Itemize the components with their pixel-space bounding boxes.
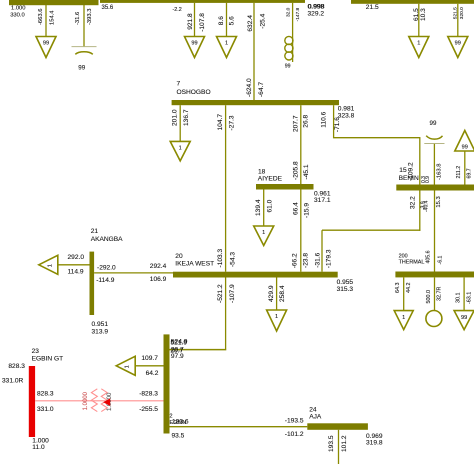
svg-text:30.1: 30.1: [455, 293, 461, 304]
svg-text:15.3: 15.3: [436, 196, 442, 207]
svg-text:-179.3: -179.3: [326, 249, 333, 268]
svg-text:32.7R: 32.7R: [437, 287, 443, 301]
svg-text:-23.8: -23.8: [303, 253, 310, 268]
svg-text:IKEJA WEST: IKEJA WEST: [175, 261, 214, 268]
svg-text:18: 18: [258, 168, 266, 175]
svg-text:-393.3: -393.3: [87, 9, 93, 25]
svg-text:-31.6: -31.6: [75, 12, 81, 25]
svg-text:-107.9: -107.9: [229, 284, 236, 303]
svg-text:99: 99: [43, 41, 49, 47]
svg-text:-40.4: -40.4: [424, 200, 430, 212]
svg-text:-6.1: -6.1: [438, 255, 444, 264]
svg-text:154.4: 154.4: [50, 10, 56, 25]
svg-text:-66.2: -66.2: [292, 253, 299, 268]
svg-text:AIYEDE: AIYEDE: [258, 175, 283, 182]
svg-text:313.9: 313.9: [92, 329, 109, 336]
svg-text:OSHOGBO: OSHOGBO: [177, 89, 211, 96]
svg-text:1.000: 1.000: [11, 6, 26, 12]
svg-text:828.3: 828.3: [8, 363, 25, 370]
svg-text:99: 99: [455, 41, 461, 47]
svg-text:-15.9: -15.9: [303, 203, 310, 218]
svg-text:0.9: 0.9: [425, 176, 431, 183]
svg-text:99: 99: [461, 315, 467, 321]
svg-text:139.4: 139.4: [255, 199, 262, 216]
svg-text:99: 99: [462, 145, 468, 151]
svg-text:500.0: 500.0: [426, 290, 432, 304]
svg-text:331.0R: 331.0R: [2, 378, 24, 385]
svg-text:44.2: 44.2: [406, 283, 412, 294]
svg-text:193.5: 193.5: [328, 435, 335, 452]
svg-text:7: 7: [177, 80, 181, 87]
svg-text:315.3: 315.3: [337, 286, 354, 293]
svg-text:828.3: 828.3: [37, 390, 54, 397]
svg-text:64.3: 64.3: [395, 283, 401, 294]
svg-text:-107.8: -107.8: [199, 13, 206, 32]
svg-text:207.7: 207.7: [292, 115, 299, 132]
svg-text:-292.0: -292.0: [97, 264, 116, 271]
svg-text:-2.2: -2.2: [173, 7, 182, 13]
svg-text:24: 24: [309, 407, 317, 414]
svg-text:200: 200: [399, 254, 408, 260]
svg-text:109.7: 109.7: [141, 355, 158, 362]
svg-text:32.0: 32.0: [285, 7, 291, 17]
svg-text:331.0: 331.0: [37, 406, 54, 413]
svg-text:-828.3: -828.3: [139, 391, 158, 398]
svg-text:-63.1: -63.1: [466, 292, 472, 304]
svg-text:106.9: 106.9: [150, 276, 167, 283]
svg-text:429.9: 429.9: [268, 285, 275, 302]
svg-text:-103.3: -103.3: [217, 248, 224, 267]
svg-text:136.7: 136.7: [183, 109, 190, 126]
svg-text:-255.5: -255.5: [139, 406, 158, 413]
svg-text:1: 1: [402, 315, 405, 321]
svg-text:-205.8: -205.8: [293, 161, 300, 180]
svg-text:-25.4: -25.4: [259, 13, 266, 28]
svg-text:99: 99: [285, 64, 291, 70]
svg-text:320.0: 320.0: [459, 7, 465, 19]
svg-text:93.5: 93.5: [172, 433, 185, 440]
svg-text:-521.2: -521.2: [217, 284, 224, 303]
svg-text:0.951: 0.951: [92, 321, 109, 328]
svg-text:110.6: 110.6: [321, 111, 328, 127]
svg-text:101.2: 101.2: [341, 435, 348, 452]
svg-text:1: 1: [262, 230, 265, 236]
svg-text:-101.2: -101.2: [285, 431, 304, 438]
svg-text:319.8: 319.8: [366, 440, 383, 447]
svg-text:99: 99: [78, 64, 85, 71]
svg-text:-147.8: -147.8: [295, 7, 301, 21]
svg-text:-193.5: -193.5: [285, 417, 304, 424]
svg-text:-45.1: -45.1: [303, 164, 310, 179]
svg-text:-31.6: -31.6: [314, 252, 321, 267]
svg-text:11.0: 11.0: [32, 444, 45, 451]
svg-text:THERMAL: THERMAL: [399, 260, 425, 266]
svg-text:405.6: 405.6: [425, 250, 431, 263]
svg-text:69.7: 69.7: [466, 168, 472, 178]
svg-text:521.5: 521.5: [452, 7, 458, 19]
svg-text:114.9: 114.9: [68, 268, 84, 275]
svg-text:632.4: 632.4: [247, 15, 254, 32]
svg-text:20: 20: [175, 253, 183, 260]
svg-text:201.0: 201.0: [171, 109, 178, 126]
svg-text:35.6: 35.6: [102, 5, 114, 11]
svg-text:-54.3: -54.3: [229, 252, 236, 267]
svg-text:-71.6: -71.6: [334, 117, 341, 132]
svg-text:0.998: 0.998: [308, 4, 325, 11]
svg-text:317.1: 317.1: [314, 197, 331, 204]
svg-text:292.0: 292.0: [68, 254, 85, 261]
svg-text:23: 23: [32, 348, 40, 355]
svg-text:258.4: 258.4: [279, 285, 286, 302]
svg-text:1: 1: [225, 41, 228, 47]
svg-text:8.6: 8.6: [218, 16, 225, 25]
svg-text:AKANGBA: AKANGBA: [91, 236, 123, 243]
svg-text:32.2: 32.2: [409, 196, 416, 209]
svg-text:1: 1: [125, 365, 131, 368]
svg-text:EGBIN GT: EGBIN GT: [32, 355, 64, 362]
svg-text:64.2: 64.2: [146, 370, 159, 377]
svg-text:330.0: 330.0: [10, 12, 25, 18]
svg-text:99: 99: [191, 41, 197, 47]
svg-text:193.6: 193.6: [172, 419, 189, 426]
svg-text:15: 15: [399, 167, 407, 174]
svg-text:104.7: 104.7: [217, 114, 224, 131]
svg-text:21: 21: [91, 228, 99, 235]
svg-text:AJA: AJA: [309, 414, 322, 421]
svg-text:-163.8: -163.8: [437, 164, 443, 180]
svg-text:1: 1: [275, 314, 278, 320]
svg-text:21.5: 21.5: [366, 4, 379, 11]
svg-text:1: 1: [179, 146, 182, 152]
svg-text:-27.3: -27.3: [229, 115, 236, 130]
svg-text:66.4: 66.4: [292, 202, 299, 215]
svg-text:1.0000: 1.0000: [83, 391, 89, 410]
svg-text:-663.6: -663.6: [38, 9, 44, 25]
svg-text:211.2: 211.2: [456, 166, 462, 179]
svg-text:26.8: 26.8: [303, 115, 310, 128]
svg-text:61.5: 61.5: [413, 8, 420, 21]
svg-text:-109.2: -109.2: [407, 162, 414, 181]
svg-text:99: 99: [430, 120, 437, 127]
svg-text:97.9: 97.9: [171, 353, 184, 360]
svg-text:921.8: 921.8: [187, 13, 194, 30]
svg-text:-624.0: -624.0: [246, 78, 253, 97]
svg-text:5.6: 5.6: [229, 16, 236, 25]
svg-text:1: 1: [47, 264, 53, 267]
svg-text:10.3: 10.3: [420, 8, 427, 21]
svg-text:-64.7: -64.7: [258, 82, 265, 97]
svg-text:1: 1: [417, 41, 420, 47]
svg-text:-114.9: -114.9: [96, 277, 115, 284]
svg-text:292.4: 292.4: [150, 263, 167, 270]
svg-text:0.981: 0.981: [338, 106, 355, 113]
svg-text:329.2: 329.2: [308, 11, 325, 18]
svg-text:61.0: 61.0: [266, 199, 273, 212]
